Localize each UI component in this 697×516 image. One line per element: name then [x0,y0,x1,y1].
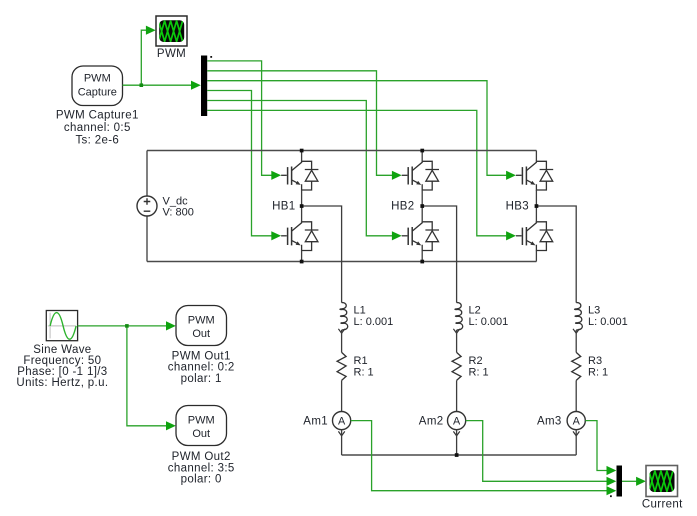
wire HB1 column [301,151,303,262]
label PWM Capture1 annotation [56,110,139,147]
wire HB3 mid stub [536,206,576,303]
wire Am1 to neutral [341,430,343,455]
svg-text:L: 0.001: L: 0.001 [469,316,509,328]
wire Am1 to mux [351,421,617,496]
wire demux out 1 to HB1 top gate [207,61,281,180]
wire branch to PWM Out2 [127,326,176,431]
transistor HB1 top igbt [281,161,318,190]
ammeter Am2 [448,412,466,436]
label V_dc [163,196,194,219]
junction sine wire [125,324,129,328]
mux bar [617,466,623,497]
junction mid HB3 [535,204,539,208]
scope PWM label [157,48,186,60]
svg-text:Current: Current [642,499,683,511]
wire branch to scope PWM [141,26,155,86]
label R3 [588,355,608,379]
svg-text:R: 1: R: 1 [588,366,608,378]
block PWM Out1 [176,306,227,346]
svg-text:polar: 1: polar: 1 [181,373,222,385]
transistor HB2 top igbt [402,161,439,190]
svg-text:R3: R3 [588,355,602,367]
wire Am3 to neutral [575,430,577,455]
label Am3 [537,416,562,428]
junction top rail HB1 [300,149,304,153]
wire HB1 mid stub [302,206,342,303]
wire L1 to R1 [341,330,343,352]
svg-text:PWM Out1: PWM Out1 [172,350,231,362]
scope Current label [642,499,683,511]
junction bottom rail HB2 [420,260,424,264]
top DC rail [147,150,536,152]
transistor HB2 bottom igbt [402,222,439,251]
svg-text:Units: Hertz, p.u.: Units: Hertz, p.u. [16,377,108,389]
label L1 [354,304,394,328]
svg-text:Out: Out [192,328,210,340]
transistor HB3 bottom igbt [516,222,553,251]
inductor L1 [338,303,347,334]
svg-text:HB1: HB1 [272,201,295,213]
svg-text:L3: L3 [588,304,600,316]
svg-text:PWM: PWM [188,415,215,427]
wire Am2 to neutral [456,430,458,455]
resistor R3 [572,352,581,380]
label Sine Wave annotation [16,344,108,389]
junction mid HB1 [300,204,304,208]
wire R1 to Am1 [341,380,343,411]
wire L3 to R3 [575,330,577,352]
block Sine Wave [46,311,77,341]
svg-text:PWM: PWM [84,73,111,85]
ammeter Am3 [567,412,585,436]
label L2 [469,304,509,328]
junction bottom rail HB1 [300,260,304,264]
svg-text:HB2: HB2 [391,201,414,213]
svg-text:PWM Capture1: PWM Capture1 [56,110,139,122]
wire demux out 4 to HB1 bottom gate [207,91,281,241]
junction top rail HB2 [420,149,424,153]
wire L2 to R2 [456,330,458,352]
svg-text:channel: 0:2: channel: 0:2 [168,362,235,374]
svg-text:HB3: HB3 [506,201,529,213]
svg-text:Capture: Capture [78,87,117,99]
block PWM Capture [72,66,123,106]
wire R2 to Am2 [456,380,458,411]
wire demux out 2 to HB2 top gate [207,71,402,180]
svg-text:channel: 0:5: channel: 0:5 [64,122,131,134]
svg-text:PWM: PWM [188,315,215,327]
wire HB3 column [535,151,537,262]
label L3 [588,304,628,328]
transistor HB3 top igbt [516,161,553,190]
svg-text:Am1: Am1 [303,416,328,428]
demux bar [201,56,207,117]
neutral rail [342,454,577,456]
svg-text:R: 1: R: 1 [469,366,489,378]
resistor R2 [452,352,461,380]
wire demux out 6 to HB3 bottom gate [207,110,516,240]
svg-text:L2: L2 [469,304,481,316]
svg-text:Am3: Am3 [537,416,562,428]
wire demux out 3 to HB3 top gate [207,81,516,180]
inductor L3 [573,303,582,334]
block PWM Out2 [176,406,227,446]
svg-text:Out: Out [192,428,210,440]
junction mid HB2 [420,204,424,208]
wire Am2 to mux [466,421,617,486]
wire Sine Wave to PWM Out1 [78,321,176,330]
scope Current [646,466,678,497]
wire left rail bottom [146,216,148,262]
label HB3 [506,201,529,213]
label HB2 [391,201,414,213]
wire R3 to Am3 [575,380,577,411]
wire mux to scope Current [622,477,646,486]
source V_dc [137,196,157,216]
svg-text:L1: L1 [354,304,366,316]
svg-text:R2: R2 [469,355,483,367]
svg-text:R: 1: R: 1 [354,366,374,378]
label PWM Out2 annotation [168,451,235,486]
label R1 [354,355,374,379]
label HB1 [272,201,295,213]
junction neutral Am2 [455,453,459,457]
svg-text:PWM: PWM [157,48,186,60]
svg-text:L: 0.001: L: 0.001 [588,316,628,328]
label Am1 [303,416,328,428]
svg-text:PWM Out2: PWM Out2 [172,451,231,463]
label R2 [469,355,489,379]
label Am2 [419,416,444,428]
mux port star [610,495,612,497]
wire left rail top [146,151,148,197]
svg-text:Ts: 2e-6: Ts: 2e-6 [75,135,119,147]
wire PWM Capture to demux [123,81,201,90]
wire demux out 5 to HB2 bottom gate [207,101,402,241]
wire HB2 mid stub [422,206,456,303]
svg-text:Am2: Am2 [419,416,444,428]
svg-text:L: 0.001: L: 0.001 [354,316,394,328]
ammeter Am1 [333,412,351,436]
junction on capture wire [140,83,144,87]
scope PWM [156,16,187,46]
svg-text:channel: 3:5: channel: 3:5 [168,462,235,474]
svg-text:V: 800: V: 800 [163,207,194,219]
resistor R1 [337,352,346,380]
transistor HB1 bottom igbt [281,222,318,251]
svg-text:R1: R1 [354,355,368,367]
svg-text:polar: 0: polar: 0 [181,474,222,486]
wire HB2 column [421,151,423,262]
bottom DC rail [147,261,536,263]
label PWM Out1 annotation [168,350,235,385]
wire Am3 to mux [585,421,616,476]
inductor L2 [453,303,462,334]
demux port star [210,56,212,58]
